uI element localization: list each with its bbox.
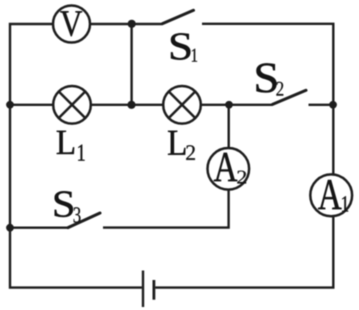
switch S2 blade [273,90,307,104]
wire: left rail with top segment to voltmeter and bottom segment to battery [10,24,142,288]
wire: left rail to lamp L1 [10,104,53,106]
wire: L1 to L2 through center node [91,104,163,106]
junction: right rail lamp-row node [329,101,337,109]
label S2 [256,63,283,95]
ammeter A2 [208,148,250,190]
junction: left rail lamp-row node [6,101,14,109]
junction: left rail S3 node [6,224,14,232]
lamp L1 [53,86,91,124]
wire: voltmeter to switch S1 pivot [90,23,162,25]
wire: top node drop to lamp row [130,24,132,105]
wire: S1 fixed contact to top-right corner and right rail upper [202,24,333,175]
wire: right rail lower to bottom-right corner and battery [155,216,333,288]
wire: left rail to S3 pivot [10,226,68,228]
lamp L2 [163,86,201,124]
switch S3 blade [68,213,100,228]
junction: lamp-row center node [127,101,135,109]
label S3 [55,191,81,222]
voltmeter V [53,6,90,43]
junction: top node [128,20,136,28]
label L2 [168,131,195,160]
wire: A2 bottom jog left to S3 fixed contact [103,190,229,228]
switch S1 blade [163,10,194,23]
label S1 [171,33,197,61]
wire: L2 to switch S2 pivot through A2 branch node [201,104,273,106]
wire: S2 fixed contact to right rail [309,104,334,106]
ammeter A1 [310,174,352,216]
label L1 [57,131,85,161]
battery short plate [152,280,155,300]
wire: A2 branch node down to ammeter A2 [227,105,229,149]
battery long plate [142,271,144,308]
junction: A2 branch node [225,101,233,109]
